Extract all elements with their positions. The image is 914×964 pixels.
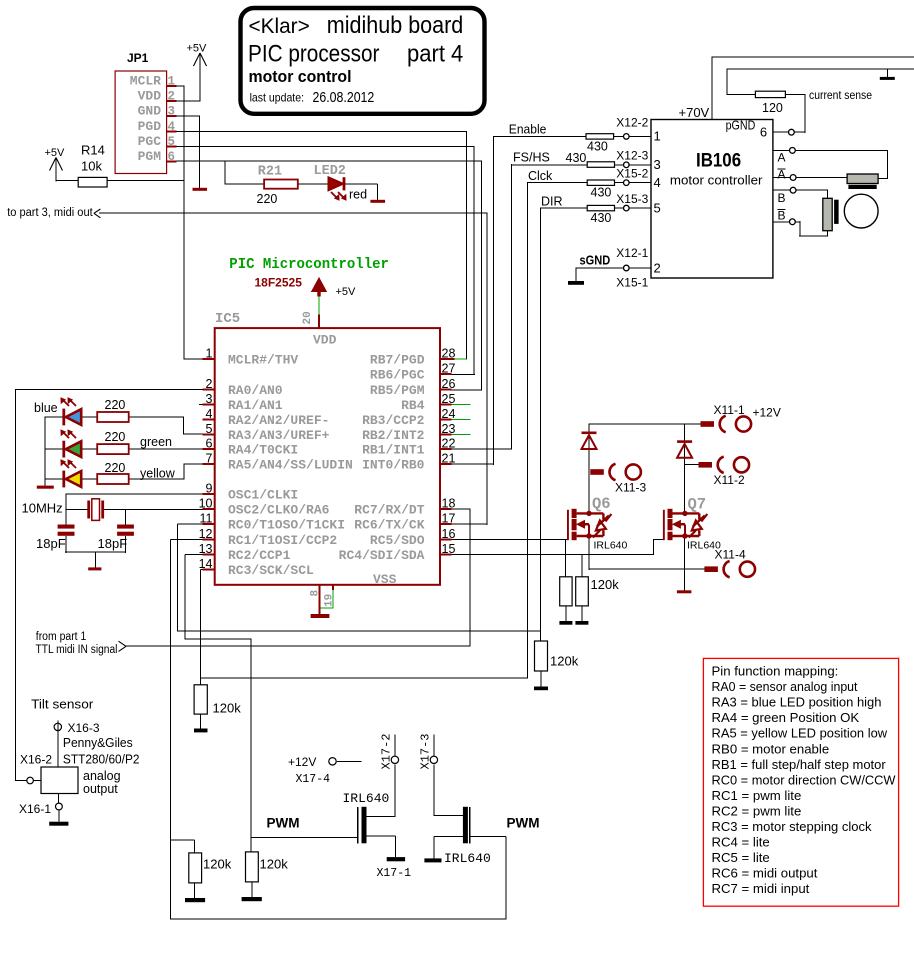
svg-text:Tilt sensor: Tilt sensor [31,697,94,712]
svg-text:LED2: LED2 [314,164,346,179]
svg-text:X16-1: X16-1 [19,802,51,816]
svg-text:FS/HS: FS/HS [513,151,550,165]
svg-text:15: 15 [442,542,456,556]
svg-text:X17-1: X17-1 [377,867,412,880]
svg-text:VSS: VSS [373,572,397,587]
svg-text:R21: R21 [258,165,282,180]
svg-text:current sense: current sense [809,90,872,102]
svg-text:RC7 = midi input: RC7 = midi input [712,881,810,896]
svg-text:21: 21 [442,452,456,466]
svg-text:23: 23 [442,422,456,436]
svg-text:1: 1 [168,75,176,89]
svg-text:+12V: +12V [288,755,316,769]
svg-text:GND: GND [138,104,162,119]
svg-text:9: 9 [206,482,213,496]
svg-text:2: 2 [168,90,176,104]
svg-text:430: 430 [566,151,587,165]
svg-text:sGND: sGND [580,253,611,268]
svg-text:<Klar>: <Klar> [249,15,310,38]
svg-text:10k: 10k [81,159,102,174]
svg-text:RA3/AN3/UREF+: RA3/AN3/UREF+ [228,428,330,443]
svg-text:1: 1 [206,346,213,360]
svg-text:120k: 120k [213,701,242,716]
svg-text:Q7: Q7 [688,496,707,514]
svg-text:+12V: +12V [753,406,781,420]
svg-text:430: 430 [591,186,612,200]
svg-text:X17-4: X17-4 [296,773,331,786]
svg-text:27: 27 [442,361,456,375]
svg-text:IC5: IC5 [215,311,240,327]
svg-text:B: B [778,208,786,222]
svg-text:24: 24 [442,407,456,421]
svg-text:430: 430 [587,140,608,154]
svg-text:PIC processor: PIC processor [248,41,379,68]
svg-text:16: 16 [442,527,456,541]
svg-text:14: 14 [199,557,213,571]
svg-text:6: 6 [760,125,767,140]
svg-text:RC7/RX/DT: RC7/RX/DT [354,503,424,518]
svg-text:+70V: +70V [679,105,710,120]
svg-text:7: 7 [206,451,213,465]
svg-text:3: 3 [206,392,213,406]
svg-text:motor controller: motor controller [670,173,763,187]
svg-text:RC5/SDO: RC5/SDO [370,533,425,548]
svg-text:11: 11 [200,512,213,526]
svg-text:10MHz: 10MHz [22,501,63,516]
svg-text:26.08.2012: 26.08.2012 [313,89,375,106]
svg-text:MCLR: MCLR [130,74,161,89]
svg-text:4: 4 [168,120,176,134]
svg-text:1: 1 [654,129,661,144]
svg-text:STT280/60/P2: STT280/60/P2 [63,753,140,767]
svg-text:A: A [778,151,786,165]
svg-text:PIC Microcontroller: PIC Microcontroller [229,257,389,273]
svg-text:RB2/INT2: RB2/INT2 [362,428,425,443]
svg-text:analog: analog [83,769,121,783]
svg-text:6: 6 [206,437,213,451]
svg-text:yellow: yellow [140,467,176,481]
svg-text:RC5 = lite: RC5 = lite [712,850,770,865]
svg-text:output: output [83,782,118,796]
svg-text:IRL640: IRL640 [343,791,390,806]
svg-text:X17-3: X17-3 [419,733,433,769]
svg-text:20: 20 [302,311,314,324]
svg-text:10: 10 [199,497,213,511]
svg-text:RA1/AN1: RA1/AN1 [228,398,283,413]
svg-text:RC6 = midi output: RC6 = midi output [712,866,818,881]
svg-text:X12-1: X12-1 [616,246,648,260]
svg-text:17: 17 [442,512,456,526]
svg-text:RB0 = motor enable: RB0 = motor enable [712,741,830,756]
svg-text:PGD: PGD [138,119,162,134]
svg-text:DIR: DIR [541,195,563,209]
svg-text:R14: R14 [81,143,105,158]
svg-text:18: 18 [442,497,456,511]
svg-text:120k: 120k [260,857,289,872]
svg-text:120k: 120k [203,857,232,872]
svg-text:RA5/AN4/SS/LUDIN: RA5/AN4/SS/LUDIN [228,457,353,472]
svg-text:X17-2: X17-2 [380,733,394,769]
svg-text:RA3 = blue LED position high: RA3 = blue LED position high [712,695,882,710]
svg-text:motor control: motor control [249,68,352,86]
svg-text:RC0 = motor direction CW/CCW: RC0 = motor direction CW/CCW [712,772,897,787]
svg-text:5: 5 [654,200,661,215]
svg-text:PGM: PGM [138,149,162,164]
svg-text:MCLR#/THV: MCLR#/THV [228,352,298,367]
svg-text:120k: 120k [550,654,579,669]
svg-text:Q6: Q6 [592,495,611,513]
svg-text:red: red [349,188,367,202]
svg-text:Penny&Giles: Penny&Giles [63,736,133,750]
svg-text:18pF: 18pF [36,536,66,551]
svg-text:X12-3: X12-3 [616,149,648,163]
svg-text:RC4 = lite: RC4 = lite [712,835,770,850]
svg-text:Clck: Clck [528,169,553,183]
svg-text:X15-3: X15-3 [616,192,648,206]
svg-text:RC1/T1OSI/CCP2: RC1/T1OSI/CCP2 [228,533,337,548]
svg-text:X12-2: X12-2 [616,115,648,129]
svg-text:+5V: +5V [336,286,357,298]
svg-text:Pin function mapping:: Pin function mapping: [712,664,839,679]
svg-text:13: 13 [199,542,213,556]
svg-text:VDD: VDD [313,333,337,348]
svg-text:RB5/PGM: RB5/PGM [370,383,425,398]
svg-text:12: 12 [199,527,213,541]
svg-text:RB4: RB4 [401,398,425,413]
svg-text:blue: blue [34,401,58,415]
svg-text:JP1: JP1 [127,51,149,65]
svg-text:3: 3 [654,157,661,172]
svg-text:3: 3 [168,105,176,119]
svg-text:to part 3, midi out: to part 3, midi out [7,207,93,219]
svg-text:X11-2: X11-2 [714,473,745,487]
svg-text:5: 5 [206,422,213,436]
svg-text:PWM: PWM [507,816,540,831]
svg-text:X15-2: X15-2 [616,167,648,181]
svg-text:X16-2: X16-2 [20,753,52,767]
svg-text:220: 220 [105,398,126,412]
svg-text:IRL640: IRL640 [444,851,491,866]
svg-text:RA4/T0CKI: RA4/T0CKI [228,443,298,458]
svg-text:2: 2 [654,260,661,275]
svg-text:midihub board: midihub board [327,12,464,39]
svg-text:RC3 = motor stepping clock: RC3 = motor stepping clock [712,819,872,834]
svg-text:120: 120 [762,101,783,115]
svg-text:RA5 = yellow LED position low: RA5 = yellow LED position low [712,726,888,741]
svg-text:Enable: Enable [509,123,547,137]
svg-text:OSC2/CLKO/RA6: OSC2/CLKO/RA6 [228,503,330,518]
svg-text:RA4 = green Position OK: RA4 = green Position OK [712,710,860,725]
svg-text:RC3/SCK/SCL: RC3/SCK/SCL [228,563,314,578]
svg-text:RC6/TX/CK: RC6/TX/CK [354,518,424,533]
svg-text:220: 220 [105,430,126,444]
svg-text:2: 2 [206,377,213,391]
svg-text:6: 6 [168,150,176,164]
svg-text:RB1/INT1: RB1/INT1 [362,443,425,458]
svg-text:430: 430 [591,211,612,225]
svg-text:VDD: VDD [138,89,162,104]
svg-text:PWM: PWM [267,816,300,831]
svg-text:5: 5 [168,135,176,149]
svg-text:green: green [140,435,172,449]
svg-text:RA0/AN0: RA0/AN0 [228,383,283,398]
svg-text:B: B [778,191,786,205]
svg-text:last update:: last update: [250,90,304,104]
svg-text:X11-1: X11-1 [714,403,745,417]
svg-text:19: 19 [324,594,336,607]
svg-text:RA2/AN2/UREF-: RA2/AN2/UREF- [228,413,329,428]
svg-text:INT0/RB0: INT0/RB0 [362,458,425,473]
svg-text:RC1 = pwm lite: RC1 = pwm lite [712,788,802,803]
svg-text:220: 220 [105,461,126,475]
svg-text:18pF: 18pF [98,536,128,551]
svg-text:part 4: part 4 [407,41,463,68]
svg-text:26: 26 [442,377,456,391]
svg-text:X11-3: X11-3 [615,481,646,495]
svg-text:8: 8 [310,590,322,597]
svg-text:RB3/CCP2: RB3/CCP2 [362,413,425,428]
svg-text:+5V: +5V [187,43,208,55]
svg-text:TTL midi IN signal: TTL midi IN signal [36,644,118,656]
svg-text:RB6/PGC: RB6/PGC [370,367,425,382]
svg-text:X15-1: X15-1 [616,275,648,289]
svg-text:IRL640: IRL640 [594,540,628,552]
svg-text:OSC1/CLKI: OSC1/CLKI [228,488,298,503]
svg-text:IB106: IB106 [696,150,741,172]
svg-text:220: 220 [257,192,278,206]
svg-text:18F2525: 18F2525 [255,276,303,290]
svg-text:RC2/CCP1: RC2/CCP1 [228,548,291,563]
svg-text:4: 4 [654,175,661,190]
svg-text:RC4/SDI/SDA: RC4/SDI/SDA [339,548,425,563]
svg-text:from part 1: from part 1 [36,631,87,643]
svg-text:pGND: pGND [726,118,756,133]
svg-text:28: 28 [442,346,456,360]
svg-text:RC0/T1OSO/T1CKI: RC0/T1OSO/T1CKI [228,518,345,533]
svg-text:4: 4 [206,407,213,421]
svg-text:RB7/PGD: RB7/PGD [370,352,425,367]
svg-text:120k: 120k [591,577,620,592]
svg-text:X16-3: X16-3 [68,721,100,735]
svg-text:RA0 = sensor analog input: RA0 = sensor analog input [712,679,858,694]
svg-text:RC2 = pwm lite: RC2 = pwm lite [712,803,802,818]
svg-text:22: 22 [442,437,456,451]
svg-text:A: A [778,167,786,181]
svg-text:+5V: +5V [45,147,66,159]
svg-text:RB1 = full step/half step moto: RB1 = full step/half step motor [712,757,887,772]
svg-text:25: 25 [442,392,456,406]
svg-text:X11-4: X11-4 [715,548,746,562]
svg-text:PGC: PGC [138,134,162,149]
